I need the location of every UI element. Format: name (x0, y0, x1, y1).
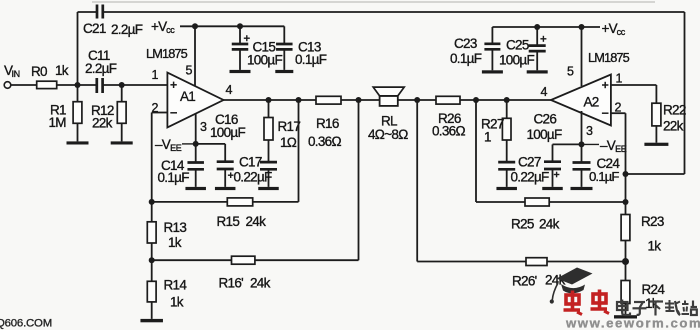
resistor R23 (621, 215, 630, 241)
svg-text:C27: C27 (518, 155, 541, 170)
svg-text:0.1µF: 0.1µF (295, 52, 327, 67)
wire speaker to R26 (398, 99, 436, 101)
watermark www.eeworm.com (565, 316, 700, 330)
ground R1 (67, 141, 89, 144)
wire R16p vertical tap (358, 100, 360, 260)
label C21 2.2uF (83, 21, 143, 37)
svg-text:1M: 1M (49, 115, 67, 130)
label C26 100uF (527, 112, 563, 143)
resistor R26 (436, 96, 460, 104)
label R26' 24k (512, 273, 566, 289)
label R15 24k (217, 214, 267, 229)
svg-text:–V: –V (600, 138, 616, 153)
svg-text:100µF: 100µF (527, 127, 563, 142)
svg-text:www.eeworm.com: www.eeworm.com (565, 316, 700, 330)
capacitor C23 (484, 27, 500, 70)
svg-text:+V: +V (602, 21, 618, 36)
wire -Vee left stub (182, 143, 196, 145)
junction C25 on +Vcc (534, 24, 540, 30)
label R1 1M (49, 103, 67, 131)
svg-text:1k: 1k (648, 239, 662, 254)
resistor R1 (73, 85, 82, 141)
svg-text:0.1µF: 0.1µF (450, 51, 482, 66)
svg-text:R15: R15 (217, 214, 240, 229)
resistor R26' (526, 258, 547, 266)
wire A2 pin 3 (581, 111, 583, 144)
node D junction (149, 257, 155, 263)
pin 2 label (152, 101, 159, 115)
wire R25 left segment (476, 201, 525, 203)
label R23 1k (641, 214, 664, 254)
label R14 1k (164, 278, 188, 310)
resistor R14 (147, 260, 156, 319)
junction R25 on pin2 (623, 199, 629, 205)
ground C24 (571, 187, 593, 190)
svg-text:3: 3 (586, 124, 593, 138)
junction C15 on +Vcc (237, 23, 243, 29)
wire C11 to A1 pin 1 (103, 84, 168, 86)
svg-text:A2: A2 (584, 95, 599, 110)
capacitor C24 (573, 144, 591, 187)
resistor R27 (502, 100, 511, 162)
capacitor C15 (232, 26, 249, 70)
capacitor C21 (97, 5, 103, 19)
capacitor C11 (97, 78, 103, 93)
label +Vcc left (151, 19, 175, 35)
pin 3 label A2 (586, 124, 593, 138)
label C27 0.22uF (511, 155, 550, 185)
resistor R0 (37, 81, 57, 88)
svg-text:100µF: 100µF (210, 125, 246, 140)
svg-text:24k: 24k (246, 214, 267, 229)
svg-text:R13: R13 (164, 220, 187, 235)
wire right edge down (684, 12, 686, 174)
resistor R13 (147, 202, 156, 260)
node B junction (119, 82, 125, 88)
wire R26p to node E (547, 261, 626, 263)
resistor R22 (652, 103, 661, 126)
svg-text:0.22µF: 0.22µF (511, 170, 550, 185)
junction R16p tap (356, 97, 362, 103)
label R25 24k (511, 217, 560, 232)
svg-text:R26ʹ: R26ʹ (512, 274, 537, 289)
label C25 100uF (499, 38, 535, 68)
label R0 1k (31, 63, 69, 79)
wire right edge to A2 pin2 node (626, 173, 685, 175)
label A2 (584, 95, 599, 110)
label C17 0.22uF (234, 155, 273, 185)
label -Vee right (600, 138, 627, 154)
svg-text:R16ʹ: R16ʹ (219, 276, 244, 291)
C15 polarity plus (244, 35, 250, 41)
ground C25 (527, 70, 548, 73)
junction R15 tap (296, 97, 302, 103)
svg-text:0.36Ω: 0.36Ω (432, 124, 465, 139)
wire R26p left segment (417, 261, 526, 263)
label R13 1k (164, 220, 187, 250)
wire -Vee to C16 (196, 143, 226, 145)
ground C14 (185, 187, 206, 190)
wire R16p right segment (255, 259, 359, 261)
watermark graduation cap (550, 268, 593, 304)
pin 1 label A2 (616, 72, 623, 86)
label C14 0.1uF (158, 158, 190, 185)
label R24 1k (642, 282, 666, 311)
svg-text:C23: C23 (454, 36, 477, 51)
wire -Vee to C26 (553, 143, 582, 145)
svg-text:R23: R23 (641, 214, 664, 229)
svg-text:1k: 1k (645, 296, 659, 311)
svg-text:A1: A1 (180, 89, 195, 104)
pin 5 label A2 (567, 65, 574, 79)
label C24 0.1uF (589, 156, 620, 184)
C26 polarity plus (554, 172, 560, 178)
label R26 0.36ohm (432, 111, 465, 139)
junction A2 pin5 on +Vcc (579, 24, 585, 30)
capacitor C13 (276, 26, 293, 70)
svg-text:3: 3 (200, 120, 207, 134)
junction feedback top on pin2 (623, 171, 629, 177)
speaker RL (373, 87, 404, 106)
wire C21 top rail to right edge (103, 11, 685, 13)
pin 4 label A2 (541, 85, 548, 99)
svg-text:R22: R22 (663, 103, 686, 118)
svg-text:+V: +V (151, 19, 167, 34)
wire R15 to node C (152, 201, 228, 203)
wire R16p to node D (152, 259, 232, 261)
label A1 (180, 89, 195, 104)
svg-text:5: 5 (186, 64, 193, 78)
input terminal VIN (4, 82, 37, 89)
svg-text:C21: C21 (83, 21, 106, 36)
resistor R24 (621, 262, 630, 304)
svg-text:1: 1 (616, 72, 623, 86)
svg-text:EE: EE (170, 143, 182, 153)
node -Vee right junction (579, 141, 585, 147)
wire node A up to C21 (78, 12, 98, 85)
svg-text:R14: R14 (164, 278, 188, 293)
wire +Vcc right rail (492, 26, 600, 28)
wire R25 to pin2 node (549, 201, 625, 203)
wire A1 pin 2 (152, 113, 168, 202)
svg-text:Q606.COM: Q606.COM (0, 318, 52, 330)
ground C16 (215, 187, 236, 190)
node E junction (622, 258, 629, 265)
svg-text:R24: R24 (642, 282, 666, 297)
ground C26 (542, 187, 563, 190)
wire R24 to ground (625, 304, 627, 316)
svg-text:R25: R25 (511, 217, 534, 232)
wire R23 to node E (625, 241, 627, 262)
C25 polarity plus (540, 36, 546, 42)
label LM1875 right (588, 50, 630, 65)
op-amp U2 LM1875 A2 (551, 75, 611, 126)
wire R22 to ground (655, 126, 657, 143)
junction pin5 on +Vcc (192, 23, 198, 29)
resistor R16' (232, 256, 255, 264)
op-amp U1 LM1875 A1 (167, 73, 223, 128)
label R16 0.36ohm (308, 116, 341, 149)
svg-text:R16: R16 (316, 116, 339, 131)
node C junction (149, 199, 155, 205)
ground C13 (275, 70, 293, 73)
resistor R12 (117, 85, 126, 141)
capacitor C16 (217, 144, 234, 187)
label -Vee left (155, 137, 182, 153)
scan streak (92, 1, 655, 3)
node A junction (75, 82, 81, 88)
wire R15 vertical tap (298, 100, 300, 202)
wire +Vcc left rail (180, 25, 284, 27)
pin 1 label (152, 68, 159, 82)
svg-text:5: 5 (567, 65, 574, 79)
capacitor C26 (544, 144, 561, 187)
label R16' 24k (219, 276, 271, 291)
svg-text:cc: cc (617, 27, 626, 37)
svg-text:R0: R0 (31, 64, 47, 79)
label LM1875 left (146, 46, 188, 61)
label C16 100uF (210, 112, 246, 140)
junction R17 (266, 97, 272, 103)
svg-text:0.1µF: 0.1µF (158, 170, 190, 185)
svg-text:22k: 22k (92, 116, 113, 131)
pin 3 label (200, 120, 207, 134)
wire R25 vertical tap (475, 100, 477, 202)
svg-text:1k: 1k (170, 295, 184, 310)
wire A1 pin 3 (195, 113, 197, 144)
ground C27 (496, 187, 517, 190)
wire R0 to C11 (57, 84, 97, 86)
svg-text:4Ω~8Ω: 4Ω~8Ω (368, 127, 408, 142)
ground R14 (140, 319, 163, 322)
ground R12 (111, 141, 133, 144)
svg-text:C25: C25 (506, 38, 529, 53)
label C15 100uF (247, 40, 283, 68)
svg-text:24k: 24k (250, 276, 271, 291)
svg-text:IN: IN (12, 69, 20, 79)
wire R16 to speaker (341, 99, 380, 101)
svg-text:1k: 1k (168, 235, 182, 250)
svg-text:0.22µF: 0.22µF (234, 170, 273, 185)
site tag Q606.COM (0, 318, 52, 330)
svg-text:2.2µF: 2.2µF (85, 61, 117, 76)
label R17 1ohm (278, 119, 301, 150)
svg-text:LM1875: LM1875 (588, 50, 630, 65)
ground R24 (614, 315, 637, 318)
resistor R25 (525, 198, 549, 206)
pin 2 label A2 (615, 101, 622, 115)
ground C15 (230, 70, 251, 73)
wire A1 pin 5 (194, 26, 196, 86)
wire R26 to A2 output (460, 99, 551, 101)
pin 5 label (186, 64, 193, 78)
svg-text:1Ω: 1Ω (280, 135, 297, 150)
capacitor C14 (187, 144, 204, 187)
label R12 22k (91, 103, 114, 131)
label R27 1 (481, 117, 504, 145)
label C23 0.1uF (450, 36, 482, 66)
svg-text:4: 4 (541, 85, 548, 99)
svg-text:100µF: 100µF (499, 53, 535, 68)
watermark chong chong red (564, 290, 610, 315)
svg-text:22k: 22k (663, 119, 684, 134)
ground C23 (482, 70, 503, 73)
node -Vee left junction (193, 141, 199, 147)
label C11 2.2uF (85, 48, 117, 76)
svg-text:–V: –V (155, 137, 171, 152)
svg-text:cc: cc (166, 25, 175, 35)
label R22 22k (663, 103, 686, 134)
label +Vcc right (602, 21, 626, 37)
wire A1 output rail (224, 99, 317, 101)
ground C17 (258, 187, 279, 190)
capacitor C27 (498, 162, 515, 187)
wire A2 pin 5 (581, 27, 583, 86)
wire R15 left segment (253, 201, 299, 203)
ground R22 (644, 143, 668, 146)
wire A2 pin 1 (611, 85, 657, 103)
pin 4 label (226, 83, 233, 97)
svg-text:R17: R17 (278, 119, 301, 134)
capacitor C25 (529, 27, 546, 70)
wire -Vee right stub (582, 143, 600, 145)
svg-text:1: 1 (152, 68, 159, 82)
resistor R15 (227, 198, 252, 206)
label VIN (4, 63, 20, 79)
svg-text:24k: 24k (539, 217, 560, 232)
junction R26p tap (414, 97, 420, 103)
svg-text:1k: 1k (55, 63, 69, 78)
junction R27 tap (504, 97, 510, 103)
label C13 0.1uF (295, 40, 327, 68)
svg-text:2.2µF: 2.2µF (111, 22, 143, 37)
C16 polarity plus (228, 172, 234, 178)
label RL 4-8ohm (368, 114, 408, 143)
resistor R16 (316, 96, 341, 104)
svg-text:1: 1 (484, 130, 491, 145)
svg-text:100µF: 100µF (247, 53, 283, 68)
watermark dianzi xiazai zhan (617, 300, 697, 316)
svg-text:0.1µF: 0.1µF (589, 169, 619, 184)
resistor R17 (264, 100, 273, 162)
junction R25 tap (473, 97, 479, 103)
svg-text:4: 4 (226, 83, 233, 97)
capacitor C17 (260, 162, 277, 187)
svg-text:C26: C26 (534, 112, 557, 127)
svg-text:LM1875: LM1875 (146, 46, 188, 61)
svg-text:C17: C17 (239, 155, 262, 170)
wire A2 pin 2 (611, 113, 626, 214)
wire R26p vertical tap (416, 100, 418, 262)
svg-text:0.36Ω: 0.36Ω (308, 134, 341, 149)
